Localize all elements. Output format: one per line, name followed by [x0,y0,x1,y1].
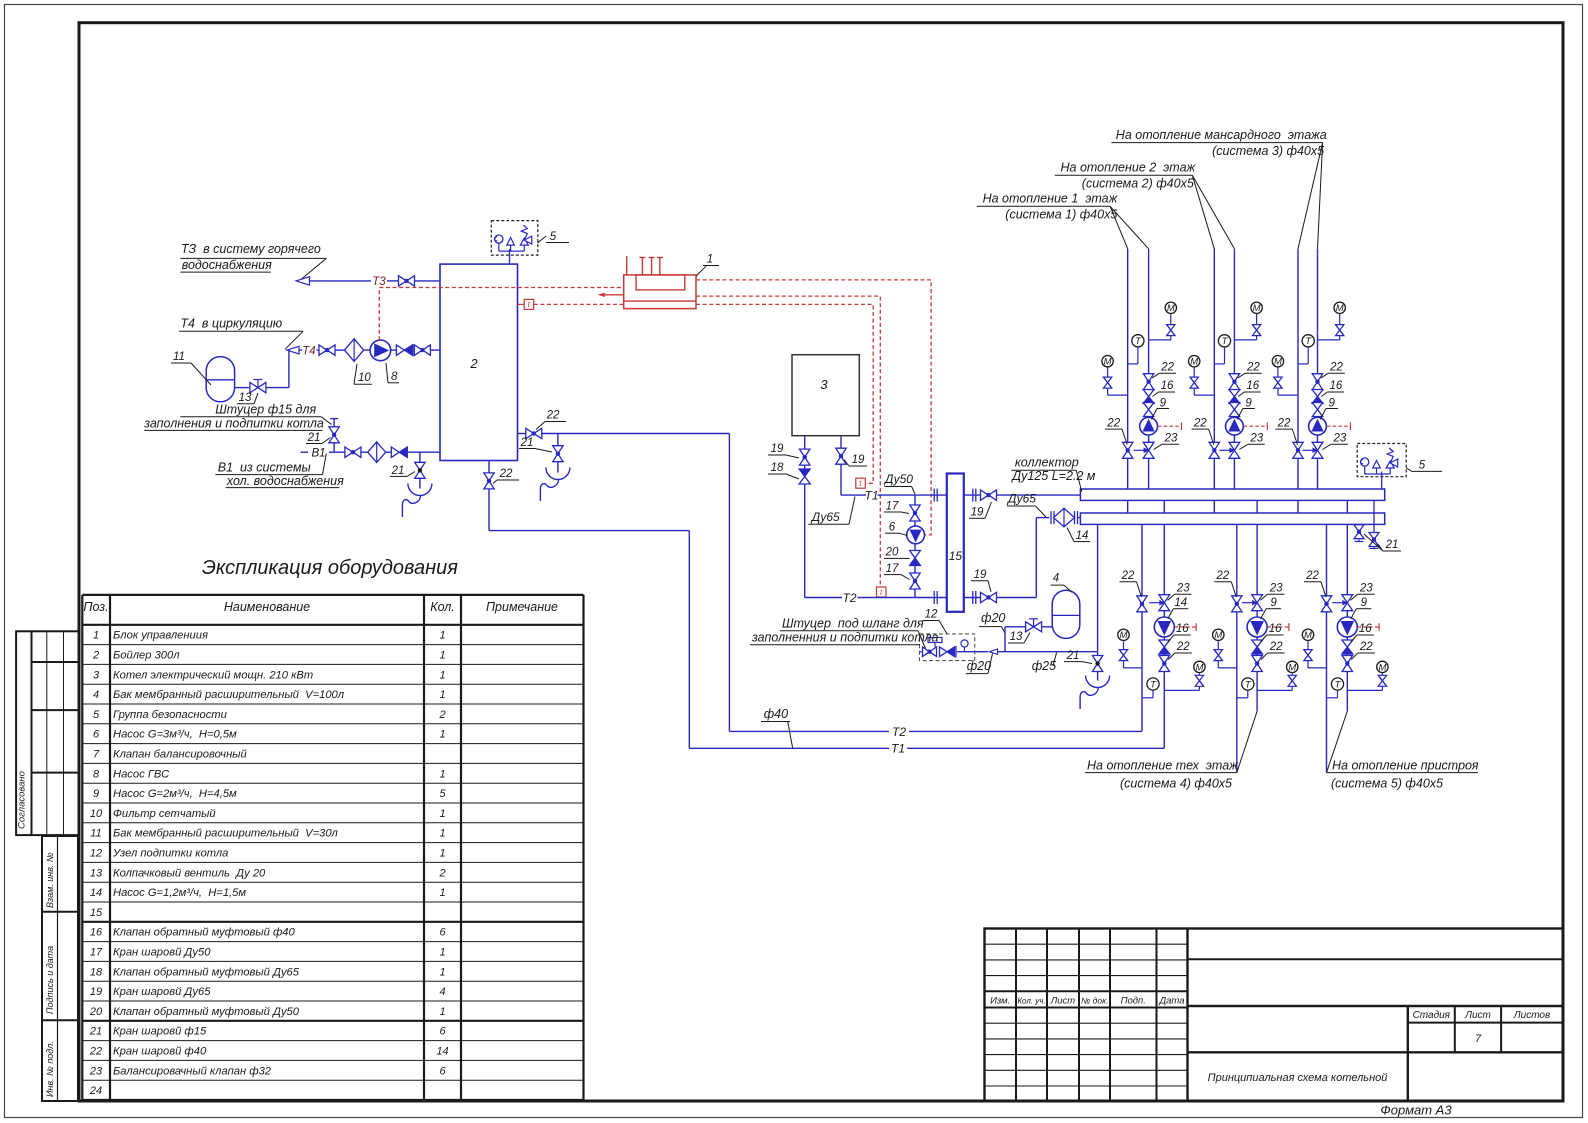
svg-text:17: 17 [90,947,103,959]
svg-text:(система 1) ф40х5: (система 1) ф40х5 [1005,207,1117,221]
svg-text:Кол.: Кол. [430,600,455,614]
svg-text:2: 2 [438,709,445,721]
wire f20 riser [1005,627,1052,652]
svg-text:Листов: Листов [1513,1010,1550,1021]
label 22 pump column sys1 [1152,362,1176,378]
label 13 tank4 [1008,631,1030,643]
valve 22 pump column sys2 [1229,374,1239,390]
label 19 T2 [971,569,991,592]
svg-text:16: 16 [1161,380,1174,392]
label B1 source [215,454,344,488]
wire safety group 2 to collector [1381,472,1383,490]
valve manometer pump column sys1 [1167,325,1175,336]
control stub pump grpA [1175,623,1197,631]
expansion tank 11 [206,357,234,402]
svg-text:Котел электрический мощн. 210: Котел электрический мощн. 210 кВт [113,669,313,681]
svg-text:17: 17 [886,563,899,575]
svg-text:23: 23 [1269,583,1283,595]
label 9 grpC [1351,597,1372,619]
svg-text:Клапан балансировочный: Клапан балансировочный [113,749,247,761]
svg-text:Насос G=3м³/ч, Н=0,5м: Насос G=3м³/ч, Н=0,5м [113,729,237,741]
filter 14 (mesh) [1051,508,1080,527]
label make-up nozzle [143,402,331,430]
wire pump column grpA [1163,500,1165,748]
svg-text:ф25: ф25 [1032,659,1056,673]
pump 6 [907,526,925,544]
label 11 [171,351,211,385]
svg-text:Принципиальная схема котельной: Принципиальная схема котельной [1208,1072,1388,1084]
svg-text:М: М [1336,303,1344,314]
svg-text:19: 19 [971,507,984,519]
label 17 lower [884,563,910,580]
wire B1 [301,451,441,453]
label 12 [923,609,947,634]
svg-text:20: 20 [885,547,899,559]
svg-text:18: 18 [90,966,103,978]
label 14 filter [1067,528,1090,543]
label 22 return grpB [1214,570,1236,597]
svg-text:10: 10 [358,372,371,384]
node T3 tag [372,276,386,288]
svg-text:Т4: Т4 [302,345,315,357]
svg-text:1: 1 [439,768,445,780]
svg-text:1: 1 [439,689,445,701]
valve 21 collector drain 2 [1369,533,1379,547]
wire B1 drain branch [419,452,421,482]
control stub pump grpB [1267,623,1289,631]
node T2 tag [842,591,856,605]
label 22 riser sys3 [1275,417,1297,444]
svg-text:2: 2 [469,356,478,371]
svg-text:13: 13 [90,867,103,879]
valve 21 tank drain [553,446,563,462]
label 9 sys1 [1152,397,1170,419]
svg-text:7: 7 [1475,1033,1482,1045]
svg-text:Фильтр сетчатый: Фильтр сетчатый [113,808,216,820]
valve on pump column sys3 [1312,403,1322,417]
manometer M riser sys2 [1189,356,1215,396]
svg-text:22: 22 [1305,570,1319,582]
svg-text:Кол. уч.: Кол. уч. [1017,997,1045,1006]
label 5 [538,231,570,243]
wire make-up line [975,651,1098,653]
svg-text:16: 16 [90,927,103,939]
manometer M left grpA [1118,629,1142,668]
valve 19 T1 [981,490,997,500]
svg-text:Т1: Т1 [891,742,905,756]
thermometer T riser sys1 [1128,335,1144,364]
svg-text:Балансировачный клапан ф32: Балансировачный клапан ф32 [113,1065,272,1077]
svg-text:1: 1 [707,254,713,266]
wire T2 exchanger to filter [964,518,1050,598]
equipment table rows [89,630,449,1097]
svg-text:4: 4 [439,986,445,998]
balancing valve 23 grpC [1332,595,1352,611]
svg-text:12: 12 [90,848,102,860]
label 16 sys2 [1238,380,1261,396]
label 10 [354,364,372,384]
svg-text:Подпись и дата: Подпись и дата [45,946,55,1014]
svg-text:1: 1 [93,630,99,642]
label 23 grpC [1351,583,1375,601]
svg-text:19: 19 [852,454,865,466]
valve manometer riser sys3 [1274,377,1282,388]
svg-text:Изм.: Изм. [990,996,1010,1007]
check valve on B1 [391,447,407,457]
valve 22 pump column sys1 [1143,374,1153,390]
svg-text:1: 1 [439,808,445,820]
svg-text:Бойлер 300л: Бойлер 300л [113,650,180,662]
svg-text:15: 15 [949,549,963,563]
svg-text:2: 2 [438,867,445,879]
svg-text:Насос G=1,2м³/ч, Н=1,5м: Насос G=1,2м³/ч, Н=1,5м [113,887,246,899]
svg-text:21: 21 [391,465,405,477]
label 22 pump column sys2 [1238,362,1262,378]
return collector bar [1080,513,1384,524]
svg-text:22: 22 [1160,362,1174,374]
svg-text:19: 19 [90,986,102,998]
valve 22 pump grpB [1252,656,1262,672]
svg-text:М: М [1253,303,1261,314]
label 8 [386,363,399,383]
svg-text:9: 9 [1361,597,1368,609]
label system 3 [1112,128,1327,249]
wire tank bottom outlet [489,461,689,749]
svg-text:Насос G=2м³/ч, Н=4,5м: Насос G=2м³/ч, Н=4,5м [113,788,237,800]
electric boiler 3 [792,355,859,436]
filter on B1 [368,442,386,463]
svg-text:10: 10 [90,808,103,820]
svg-text:23: 23 [89,1065,103,1077]
control wire to sensor T2 [696,296,880,586]
wire boiler3 right pipe [841,436,866,495]
wire supply riser sys1 [1127,249,1129,513]
svg-text:Т3: Т3 [372,276,386,288]
control stub pump sys1 [1158,422,1182,430]
svg-text:Насос ГВС: Насос ГВС [113,768,170,780]
title block texts [990,996,1550,1084]
svg-text:заполненния и подпитки котла: заполненния и подпитки котла [751,631,939,645]
thermometer T riser sys2 [1214,335,1230,364]
svg-text:1: 1 [439,966,445,978]
svg-text:Т1: Т1 [864,489,878,503]
svg-text:М: М [1104,357,1112,368]
label 21 collector drains [1364,534,1401,551]
svg-text:Бак мембранный расширительный: Бак мембранный расширительный V=100л [113,689,345,701]
control wire pump8 [379,288,623,341]
control wire to sensor T1 [696,304,873,483]
svg-text:18: 18 [771,462,784,474]
svg-text:водоснабжения: водоснабжения [182,258,272,272]
svg-text:М: М [1167,303,1175,314]
wire collector drain 1 [1355,524,1364,541]
valve manometer right grpB [1288,675,1296,686]
wire pump column sys2 [1233,249,1235,489]
balancing valve 23 grpA [1149,595,1169,611]
label 6 [885,522,908,536]
label 22 return grpA [1120,570,1142,597]
svg-text:Взам. инв. №: Взам. инв. № [45,852,55,908]
svg-text:20: 20 [89,1006,103,1018]
svg-text:24: 24 [89,1085,102,1097]
svg-text:Лист: Лист [1464,1010,1491,1021]
label 22 tank right [536,410,566,430]
svg-text:Ду65: Ду65 [1006,492,1036,506]
svg-text:Т2: Т2 [892,725,906,739]
svg-text:Дата: Дата [1158,996,1184,1007]
label 17 upper [884,501,909,514]
pump 9 grpC [1337,617,1357,637]
manometer M right grpB [1257,661,1298,690]
label 9 sys2 [1237,397,1255,419]
label system 4 [1085,711,1257,790]
wire pump column grpB [1256,500,1258,711]
svg-text:21: 21 [89,1026,102,1038]
wire T1 to exchanger [878,494,947,496]
wire T4 [299,349,440,351]
expansion tank 4 [1052,590,1080,638]
svg-text:9: 9 [1160,397,1167,409]
svg-text:Стадия: Стадия [1413,1010,1451,1021]
svg-text:1: 1 [439,1006,445,1018]
thermometer T riser sys3 [1298,335,1314,364]
svg-text:М: М [1274,357,1282,368]
svg-text:Блок управлениия: Блок управлениия [113,630,208,642]
svg-text:М: М [1195,662,1203,673]
svg-text:8: 8 [391,371,398,383]
check valve 16 grpA [1159,640,1170,654]
wire return column grpA [1141,524,1143,731]
label 21 tank drain [519,437,552,452]
pump 9 grpB [1247,617,1267,637]
svg-text:Группа безопасности: Группа безопасности [113,709,227,721]
valve 22 return grpC [1321,596,1331,612]
label 23 sys3 [1322,433,1348,450]
valve manometer left grpA [1119,650,1127,661]
svg-text:23: 23 [1359,583,1373,595]
valve 22 pump grpC [1342,656,1352,672]
temperature sensor t T2 [877,587,887,597]
label 22 pump column sys3 [1321,362,1345,378]
control stub pump sys3 [1327,422,1351,430]
svg-text:16: 16 [1269,623,1282,635]
svg-text:1: 1 [439,848,445,860]
label 21 make-up drain [1064,650,1092,664]
node T1 long tag [891,742,905,756]
svg-text:М: М [1214,630,1222,641]
valve 22 on T4 at tank [414,345,430,355]
svg-text:9: 9 [1328,397,1335,409]
svg-text:22: 22 [546,410,560,422]
valve 22 pump grpA [1159,656,1169,672]
wire make-up stub [330,419,338,453]
svg-text:4: 4 [1053,573,1059,585]
wire cap valve to T4 [266,350,289,388]
svg-text:1: 1 [439,887,445,899]
svg-text:Инв. № подл.: Инв. № подл. [45,1041,55,1097]
label 21 make-up [306,432,331,444]
balancing valve 23 sys1 [1134,442,1154,458]
svg-text:М: М [1378,662,1386,673]
valve manometer riser sys2 [1190,377,1198,388]
svg-text:12: 12 [925,609,938,621]
flange T2 left [934,591,937,604]
valve 21 collector drain 1 [1354,525,1364,539]
label 16 sys3 [1321,380,1344,396]
svg-text:22: 22 [499,468,513,480]
label 19 boiler3 right [844,454,867,466]
svg-text:23: 23 [1164,433,1178,445]
svg-text:В1: В1 [311,447,325,459]
valve manometer pump column sys2 [1252,325,1260,336]
svg-text:Бак мембранный расширительный: Бак мембранный расширительный V=30л [113,828,339,840]
wire boiler3 left pipe [804,436,806,598]
label 5 second [1406,460,1442,472]
label system 5 [1327,711,1479,790]
pump 9 sys3 [1309,417,1327,435]
valve 21 on T4 [319,345,335,355]
svg-text:В1 из системы: В1 из системы [218,461,311,475]
label system 2 [1055,161,1235,249]
svg-text:На отопление мансардного этаж: На отопление мансардного этажа [1116,128,1327,142]
svg-text:ф20: ф20 [981,611,1005,625]
svg-text:5: 5 [93,709,100,721]
svg-text:Т4 в циркуляцию: Т4 в циркуляцию [180,317,282,331]
svg-text:3: 3 [93,669,100,681]
svg-text:Колпачковый вентиль Ду 20: Колпачковый вентиль Ду 20 [113,867,266,879]
svg-text:22: 22 [1359,641,1373,653]
svg-text:М: М [1120,630,1128,641]
svg-text:14: 14 [436,1046,448,1058]
wire bypass branch [914,495,916,597]
svg-text:1: 1 [439,729,445,741]
svg-text:9: 9 [93,788,99,800]
svg-text:На отопление 2 этаж: На отопление 2 этаж [1061,161,1197,175]
pump 9 sys1 [1140,417,1158,435]
svg-text:21: 21 [520,437,534,449]
wire make-up drain [1097,652,1099,674]
wire pump column grpC [1346,500,1348,711]
svg-text:М: М [1288,662,1296,673]
valve manometer riser sys1 [1103,377,1111,388]
wire supply riser sys3 [1297,249,1299,513]
svg-text:6: 6 [439,1065,446,1077]
manometer M riser sys3 [1272,356,1298,396]
svg-text:№ док.: № док. [1081,996,1108,1006]
svg-text:16: 16 [1246,380,1259,392]
label 22 pump grpC [1351,641,1375,659]
label 1 [696,254,719,277]
svg-text:Экспликация оборудования: Экспликация оборудования [202,557,458,579]
svg-text:5: 5 [439,788,446,800]
svg-text:22: 22 [1269,641,1283,653]
format note [1380,1103,1452,1118]
pump 9 sys2 [1226,417,1244,435]
svg-text:Формат А3: Формат А3 [1380,1103,1452,1118]
control wire to pump 6 [696,280,931,535]
svg-text:9: 9 [1245,397,1252,409]
svg-text:Поз.: Поз. [83,600,108,614]
pump 14 grpA [1154,617,1174,637]
thermometer T grpA [1142,678,1159,698]
svg-text:Кран шаровй Ду65: Кран шаровй Ду65 [113,986,211,998]
wire pump column sys1 [1148,249,1150,489]
filter 10 [345,339,364,362]
svg-text:22: 22 [1329,362,1343,374]
svg-text:На отопление пристроя: На отопление пристроя [1332,758,1479,772]
label 22 pump grpB [1261,641,1285,659]
svg-text:Ду65: Ду65 [810,510,840,524]
valve manometer pump column sys3 [1336,325,1344,336]
label 16 sys1 [1153,380,1176,396]
drain funnel make-up [1080,674,1110,709]
svg-text:(система 2) ф40х5: (система 2) ф40х5 [1082,176,1194,190]
wire T2 to exchanger [805,597,947,599]
wire T3 [310,280,441,282]
wire pump column sys3 [1317,249,1319,489]
svg-text:1: 1 [439,947,445,959]
svg-text:19: 19 [974,569,987,581]
node T1 tag [864,489,878,503]
svg-text:ф20: ф20 [967,659,991,673]
label 16 grpB [1261,623,1284,642]
svg-text:7: 7 [93,749,100,761]
svg-text:Кран шаровй ф15: Кран шаровй ф15 [113,1026,207,1038]
label T3 system [180,242,326,280]
svg-text:21: 21 [1385,539,1399,551]
valve 22 on B1 [345,447,361,457]
valve 22 pump column sys3 [1312,374,1322,390]
cap valve 13 tank4 [1026,619,1042,632]
left inventory stamp table [42,836,78,1101]
label Du65 collector [1006,492,1046,518]
svg-text:21: 21 [1066,650,1080,662]
equipment table header [83,600,558,614]
svg-text:17: 17 [886,501,899,513]
hot water tank (boiler) 2 [440,264,518,460]
svg-text:6: 6 [889,522,896,534]
valve manometer right grpC [1378,675,1386,686]
svg-text:22: 22 [1193,417,1207,429]
manometer M right grpC [1347,661,1388,690]
hose arrow [990,649,998,654]
check valve 16 sys2 [1229,390,1240,404]
svg-text:Наименование: Наименование [224,600,310,614]
control stub pump sys2 [1244,422,1268,430]
label 23 grpA [1168,583,1192,601]
svg-text:21: 21 [307,432,321,444]
manometer M riser sys1 [1102,356,1128,396]
svg-text:11: 11 [90,828,101,840]
svg-text:Штуцер под шланг для: Штуцер под шланг для [782,616,924,630]
valve 22 return grpA [1137,596,1147,612]
valve manometer left grpC [1304,650,1312,661]
svg-text:Кран шаровй ф40: Кран шаровй ф40 [113,1046,207,1058]
label 21 B1 drain [390,465,415,477]
svg-text:16: 16 [1359,623,1372,635]
svg-text:14: 14 [1174,597,1187,609]
manometer M right grpA [1164,661,1205,690]
node T2 long tag [892,725,906,739]
valve 22 riser sys2 [1209,442,1219,458]
label T4 circulation [179,317,303,350]
manometer M pump column sys1 [1149,302,1177,340]
node T4 tag [302,345,315,357]
svg-text:11: 11 [173,351,185,363]
svg-text:1: 1 [439,630,445,642]
svg-text:Клапан обратный муфтовый ф40: Клапан обратный муфтовый ф40 [113,927,296,939]
svg-text:22: 22 [1106,417,1120,429]
